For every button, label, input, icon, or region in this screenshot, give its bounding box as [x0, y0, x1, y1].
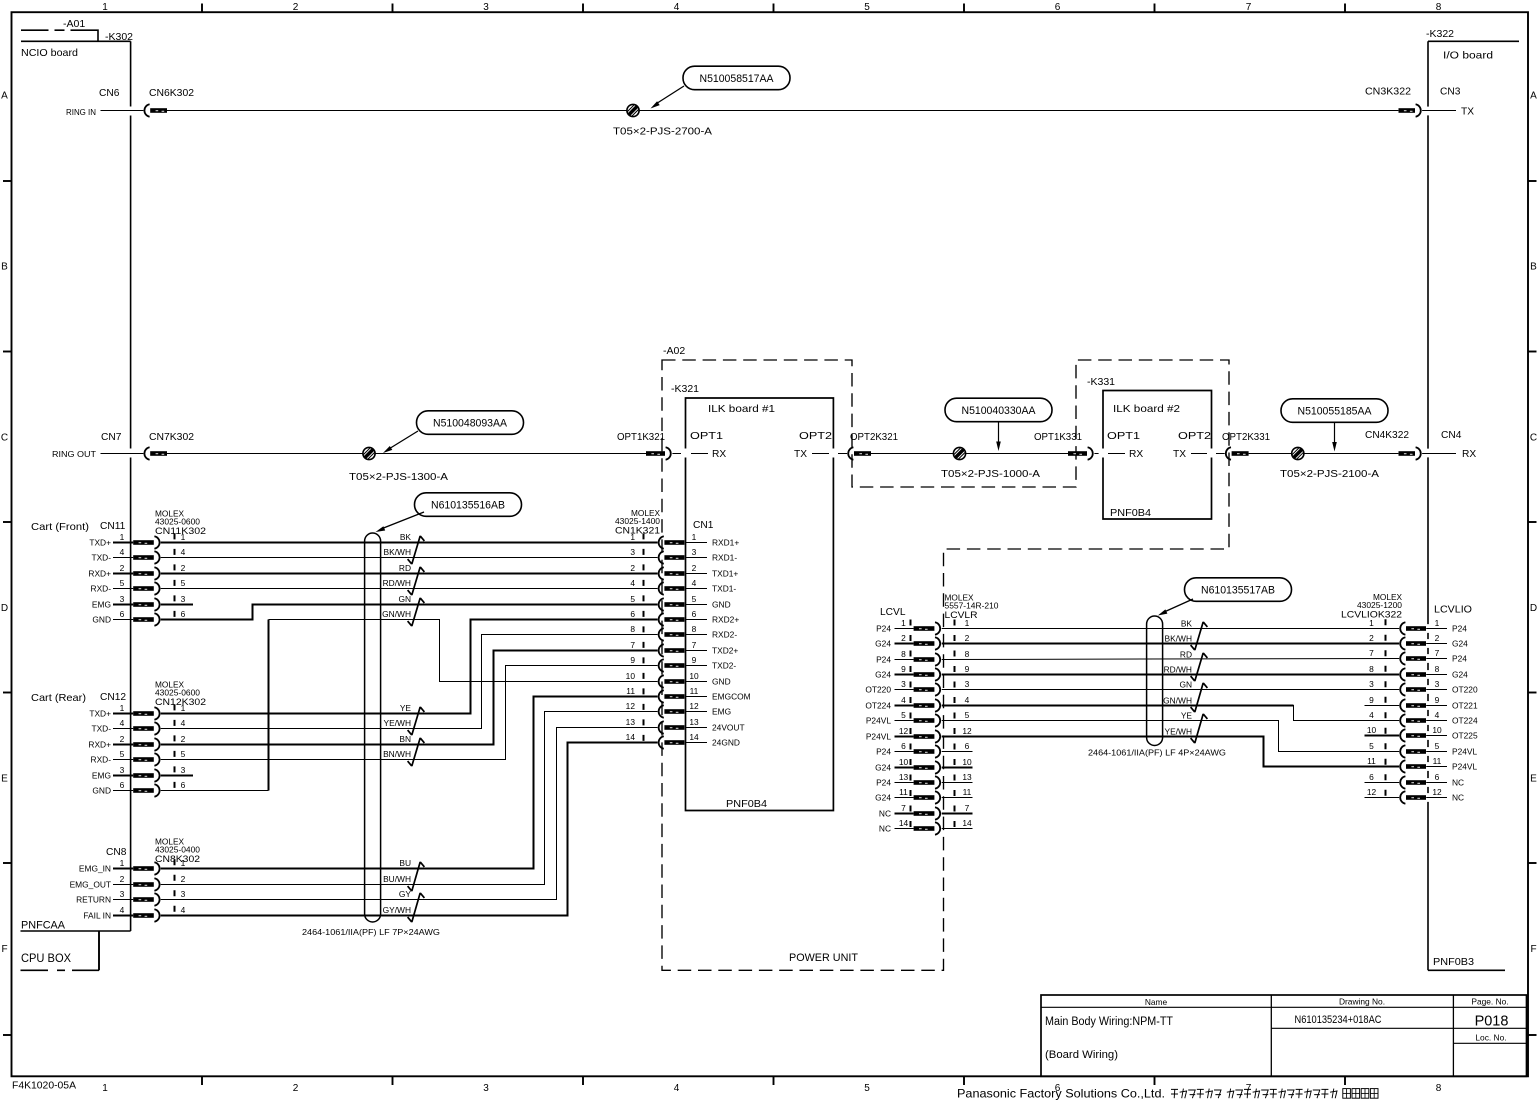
- pin 1 TXD+: [89, 703, 185, 720]
- svg-text:7: 7: [1246, 2, 1252, 13]
- svg-text:CN8K302: CN8K302: [155, 854, 200, 865]
- board PNFCAA name line: [21, 931, 131, 970]
- wire colour label BK: [400, 532, 412, 542]
- connector LCVL pin 7 NC: [879, 803, 970, 820]
- svg-text:RXD1-: RXD1-: [712, 553, 737, 563]
- svg-text:OT220: OT220: [865, 685, 891, 695]
- svg-text:6: 6: [630, 609, 635, 619]
- connector OPT2K321 plug: [848, 447, 871, 459]
- connector LCVLIO pin 6 NC: [1365, 772, 1465, 789]
- twisted pair mark right harness: [1191, 683, 1208, 712]
- label NCIO board: [21, 47, 78, 59]
- connector CN7K302 plug: [144, 447, 167, 459]
- label MOLEX 43025-1200 LCVLIOK322: [1341, 593, 1403, 621]
- callout N510040330AA: [945, 398, 1052, 451]
- wire colour label BN: [399, 734, 411, 744]
- svg-text:RXD-: RXD-: [91, 755, 112, 765]
- svg-text:P24: P24: [876, 655, 891, 665]
- svg-text:RX: RX: [1129, 449, 1143, 460]
- svg-text:7: 7: [1435, 648, 1440, 658]
- svg-text:D: D: [1530, 603, 1537, 614]
- svg-text:3: 3: [1369, 679, 1374, 689]
- svg-text:RXD+: RXD+: [88, 740, 111, 750]
- wire colour label GN: [398, 594, 411, 604]
- label CN7: [101, 432, 122, 443]
- connector LCVLIO pin 3 OT220: [1369, 679, 1478, 696]
- svg-text:P24VL: P24VL: [866, 716, 891, 726]
- wire BU CN8.1 to CN1.11: [161, 697, 658, 869]
- svg-text:5: 5: [630, 594, 635, 604]
- svg-text:TX: TX: [794, 449, 807, 460]
- svg-text:7: 7: [1369, 648, 1374, 658]
- wire RING IN cable left half: [167, 110, 627, 112]
- wire OPT1K321 to ILK1 edge: [672, 453, 681, 455]
- svg-text:NCIO board: NCIO board: [21, 47, 78, 59]
- svg-text:C: C: [1530, 433, 1537, 444]
- svg-text:10: 10: [1432, 725, 1442, 735]
- svg-text:P018: P018: [1475, 1014, 1509, 1030]
- label CN11: [100, 521, 126, 532]
- svg-text:-A02: -A02: [663, 345, 685, 357]
- twisted pair mark: [408, 862, 425, 891]
- svg-text:P24: P24: [1452, 654, 1467, 664]
- label I/O board: [1443, 50, 1493, 62]
- svg-text:BN/WH: BN/WH: [383, 749, 411, 759]
- connector CN1 pin 4 TXD1-: [630, 578, 736, 595]
- wire colour label RD: [399, 563, 411, 573]
- label OPT1 of ILK2: [1107, 431, 1140, 442]
- cable label T05x2-PJS-1000-A: [941, 469, 1040, 480]
- label Cart (Rear): [31, 692, 86, 704]
- wire colour label GN right harness: [1179, 679, 1192, 689]
- svg-text:3: 3: [483, 1083, 489, 1094]
- label OPT2 of ILK2: [1178, 431, 1211, 442]
- wire ILK1 TX out: [838, 453, 847, 455]
- svg-text:CN11: CN11: [100, 521, 126, 532]
- svg-text:24VOUT: 24VOUT: [712, 723, 745, 733]
- svg-text:5: 5: [864, 1083, 870, 1094]
- label CN6K302: [149, 88, 194, 99]
- svg-text:1: 1: [692, 532, 697, 542]
- wire colour label BU: [399, 858, 411, 868]
- svg-text:4: 4: [120, 718, 125, 728]
- svg-text:BK/WH: BK/WH: [384, 547, 411, 557]
- svg-text:-A01: -A01: [63, 18, 85, 30]
- svg-text:P24: P24: [876, 747, 891, 757]
- svg-text:BK: BK: [1181, 618, 1193, 628]
- svg-text:12: 12: [962, 726, 972, 736]
- svg-text:2: 2: [901, 633, 906, 643]
- svg-text:GN: GN: [398, 594, 411, 604]
- svg-text:G24: G24: [875, 639, 891, 649]
- wire colour label YE right harness: [1181, 710, 1193, 720]
- wire GN/WH CN12.6 stub: [161, 790, 269, 792]
- svg-text:12: 12: [689, 701, 699, 711]
- svg-text:OPT1K321: OPT1K321: [617, 432, 665, 443]
- connector CN1 pin 12 EMG: [626, 701, 731, 718]
- connector LCVLIO pin 10 OT225: [1365, 725, 1478, 742]
- svg-text:CN1K321: CN1K321: [615, 526, 660, 537]
- wire BN CN12.2 to CN1.7: [161, 651, 658, 745]
- connector LCVL pin 1 P24: [876, 618, 970, 635]
- svg-text:3: 3: [120, 765, 125, 775]
- connector LCVLIO pin 4 OT224: [1369, 710, 1478, 727]
- wire RING OUT to splice: [167, 453, 363, 455]
- svg-text:6: 6: [965, 741, 970, 751]
- connector CN11 mating line: [174, 533, 176, 625]
- svg-text:OPT1: OPT1: [1107, 431, 1140, 442]
- label OPT2K321: [850, 432, 898, 443]
- pin TX of ILK1: [794, 449, 829, 460]
- connector OPT1K331 plug: [1068, 447, 1093, 459]
- svg-text:6: 6: [1435, 772, 1440, 782]
- enclosure CPU BOX boundary bottom: [21, 969, 100, 971]
- wire GN CN11.6 to CN1.5: [161, 605, 658, 620]
- cable sheath 4P harness: [1147, 616, 1163, 746]
- svg-text:NC: NC: [879, 824, 891, 834]
- svg-text:EMGCOM: EMGCOM: [712, 692, 751, 702]
- svg-text:Name: Name: [1145, 997, 1168, 1007]
- wire GN/WH LCVL.4 to LCVLIO.4: [942, 705, 1294, 707]
- pin 5 RXD-: [91, 578, 186, 595]
- svg-text:T05×2-PJS-2700-A: T05×2-PJS-2700-A: [613, 127, 712, 138]
- svg-text:P24: P24: [1452, 624, 1467, 634]
- svg-text:3: 3: [1435, 679, 1440, 689]
- svg-text:1: 1: [630, 532, 635, 542]
- connector LCVL pin 8 P24: [876, 649, 970, 666]
- svg-text:10: 10: [1367, 725, 1377, 735]
- cable label T05x2-PJS-2100-A: [1280, 469, 1379, 480]
- svg-text:2: 2: [965, 633, 970, 643]
- wire YE/WH CN12.4 to CN1.8: [161, 635, 658, 729]
- pin CN3 TX of I/O board: [1422, 107, 1474, 118]
- svg-text:2: 2: [120, 874, 125, 884]
- label LCVL: [880, 607, 906, 618]
- svg-text:14: 14: [626, 732, 636, 742]
- svg-text:2: 2: [293, 2, 299, 13]
- svg-text:5: 5: [965, 710, 970, 720]
- svg-text:GND: GND: [712, 600, 731, 610]
- svg-text:4: 4: [181, 547, 186, 557]
- pin CN4 RX of I/O board: [1422, 449, 1476, 460]
- svg-text:BN: BN: [399, 734, 411, 744]
- connector LCVL pin 6 P24: [876, 741, 970, 758]
- svg-text:6: 6: [120, 609, 125, 619]
- svg-text:8: 8: [1435, 664, 1440, 674]
- svg-text:TXD2+: TXD2+: [712, 646, 738, 656]
- svg-text:B: B: [1530, 262, 1537, 273]
- wire stub LCVL pin 6: [942, 751, 973, 753]
- label MOLEX 43025-1400 CN1K321: [615, 509, 661, 537]
- svg-text:RING IN: RING IN: [66, 108, 96, 117]
- svg-text:F4K1020-05A: F4K1020-05A: [12, 1081, 76, 1092]
- wire splice to OPT1K321: [375, 453, 646, 455]
- svg-text:3: 3: [692, 547, 697, 557]
- svg-text:GND: GND: [92, 786, 111, 796]
- label CPU BOX: [21, 953, 71, 965]
- wire colour label BN/WH: [383, 749, 411, 759]
- svg-text:EMG_IN: EMG_IN: [79, 864, 111, 874]
- svg-text:RXD2-: RXD2-: [712, 630, 737, 640]
- svg-text:4: 4: [674, 1083, 680, 1094]
- svg-text:EMG: EMG: [92, 771, 111, 781]
- label LCVLIO: [1434, 605, 1472, 616]
- svg-text:TX: TX: [1173, 449, 1186, 460]
- label CN3: [1440, 87, 1461, 98]
- board K302 NCIO outline: [21, 41, 131, 931]
- title block header Loc. No.: [1475, 1033, 1506, 1043]
- pin RX of ILK2: [1108, 449, 1143, 460]
- svg-text:1: 1: [102, 1083, 108, 1094]
- svg-text:4: 4: [181, 718, 186, 728]
- svg-text:3: 3: [630, 547, 635, 557]
- title block header Page. No.: [1471, 997, 1508, 1007]
- wire colour label RD/WH: [383, 578, 411, 588]
- connector LCVL pin 9 G24: [875, 664, 970, 681]
- svg-text:GY/WH: GY/WH: [383, 905, 411, 915]
- svg-text:GND: GND: [712, 677, 731, 687]
- enclosure A01 CPU BOX boundary top: [21, 30, 98, 41]
- wire YE LCVL.5 to LCVLIO.5: [942, 721, 1399, 752]
- svg-text:RD/WH: RD/WH: [1164, 664, 1192, 674]
- label -K321: [671, 383, 699, 395]
- pin CN7 RING OUT of NCIO board: [52, 450, 143, 459]
- svg-text:3: 3: [181, 765, 186, 775]
- svg-text:8: 8: [1436, 2, 1442, 13]
- svg-text:BU/WH: BU/WH: [383, 874, 411, 884]
- connector CN1 pin 5 GND: [630, 594, 730, 611]
- pin 3 EMG: [92, 765, 186, 782]
- pin 4 TXD-: [91, 547, 185, 564]
- pin 2 RXD+: [88, 734, 185, 751]
- svg-text:I/O board: I/O board: [1443, 50, 1493, 62]
- svg-text:RD: RD: [399, 563, 411, 573]
- board K322 I/O board outline: [1428, 41, 1519, 970]
- svg-text:CN4K322: CN4K322: [1365, 430, 1409, 441]
- svg-text:CN7: CN7: [101, 432, 122, 443]
- svg-text:G24: G24: [875, 793, 891, 803]
- connector CN1 pin 2 TXD1+: [630, 563, 738, 580]
- svg-text:4: 4: [1435, 710, 1440, 720]
- connector LCVL pin 14 NC: [879, 818, 972, 835]
- connector LCVLIO pin 12 NC: [1365, 787, 1465, 804]
- wire RD/WH CN11.5 to CN1.4: [161, 588, 658, 590]
- title block header Drawing No.: [1339, 997, 1385, 1007]
- svg-text:CN6K302: CN6K302: [149, 88, 194, 99]
- svg-text:1: 1: [181, 858, 186, 868]
- svg-text:N610135516AB: N610135516AB: [431, 499, 505, 511]
- svg-text:2: 2: [1369, 633, 1374, 643]
- svg-text:2464-1061/IIA(PF) LF 7P×24AWG: 2464-1061/IIA(PF) LF 7P×24AWG: [302, 927, 440, 937]
- drawing number N610135234+018AC: [1295, 1014, 1382, 1026]
- callout N510055185AA: [1281, 399, 1388, 452]
- svg-text:3: 3: [965, 679, 970, 689]
- svg-text:RD/WH: RD/WH: [383, 578, 411, 588]
- svg-text:TXD-: TXD-: [91, 553, 111, 563]
- wire BN/WH CN12.5 to CN1.9: [161, 666, 658, 760]
- svg-text:NC: NC: [1452, 778, 1464, 788]
- svg-text:11: 11: [690, 686, 699, 696]
- callout N510048093AA: [383, 411, 524, 453]
- svg-text:4: 4: [120, 547, 125, 557]
- connector LCVL mating lines: [911, 620, 955, 837]
- svg-text:5: 5: [692, 594, 697, 604]
- svg-text:12: 12: [626, 701, 636, 711]
- label CN3K322: [1365, 87, 1411, 98]
- splice joint on PJS-1000 cable: [953, 447, 967, 461]
- svg-text:EMG: EMG: [92, 600, 111, 610]
- svg-text:RING OUT: RING OUT: [52, 450, 96, 459]
- wire colour label BK/WH: [384, 547, 411, 557]
- connector LCVL pin 2 G24: [875, 633, 970, 650]
- svg-text:N510048093AA: N510048093AA: [433, 417, 508, 429]
- svg-text:2: 2: [692, 563, 697, 573]
- svg-text:10: 10: [899, 757, 909, 767]
- pin 4 TXD-: [91, 718, 185, 735]
- svg-text:-K321: -K321: [671, 383, 699, 395]
- enclosure A02 POWER UNIT dashed boundary: [662, 360, 1229, 970]
- svg-text:1: 1: [181, 532, 186, 542]
- cable label T05x2-PJS-2700-A: [613, 127, 712, 138]
- svg-text:5: 5: [901, 710, 906, 720]
- svg-text:6: 6: [1055, 2, 1061, 13]
- svg-text:11: 11: [963, 787, 972, 797]
- svg-text:N510058517AA: N510058517AA: [700, 73, 775, 85]
- svg-text:9: 9: [1369, 695, 1374, 705]
- label MOLEX 43025-0600 CN11K302: [155, 510, 206, 538]
- svg-text:10: 10: [626, 671, 636, 681]
- svg-text:9: 9: [1435, 695, 1440, 705]
- splice joint on PJS-2100 cable: [1291, 447, 1305, 461]
- svg-text:Cart (Front): Cart (Front): [31, 521, 89, 533]
- svg-text:GN: GN: [1179, 679, 1192, 689]
- connector CN6K302 plug: [144, 104, 167, 116]
- svg-text:RD: RD: [1180, 649, 1192, 659]
- svg-text:T05×2-PJS-1000-A: T05×2-PJS-1000-A: [941, 469, 1040, 480]
- svg-text:8: 8: [901, 649, 906, 659]
- wire GY CN8.3 to CN1.13: [161, 728, 658, 900]
- pin 3 EMG: [92, 594, 186, 611]
- svg-text:-K322: -K322: [1426, 28, 1454, 40]
- svg-text:2: 2: [293, 1083, 299, 1094]
- svg-text:F: F: [1530, 944, 1536, 955]
- svg-text:6: 6: [120, 780, 125, 790]
- svg-text:BK/WH: BK/WH: [1165, 633, 1192, 643]
- svg-text:RXD2+: RXD2+: [712, 615, 739, 625]
- svg-text:CN1: CN1: [693, 520, 714, 531]
- pin 4 FAIL IN: [83, 905, 185, 922]
- pin 1 EMG_IN: [79, 858, 186, 875]
- svg-text:OPT1: OPT1: [690, 431, 723, 442]
- svg-text:RXD+: RXD+: [88, 569, 111, 579]
- svg-text:-K331: -K331: [1087, 376, 1115, 388]
- label CN7K302: [149, 432, 194, 443]
- wire colour label GN/WH right harness: [1163, 695, 1192, 705]
- svg-text:Main Body Wiring:NPM-TT: Main Body Wiring:NPM-TT: [1045, 1016, 1173, 1028]
- label CN6: [99, 88, 120, 99]
- svg-text:2: 2: [120, 563, 125, 573]
- svg-text:3: 3: [120, 889, 125, 899]
- pin 2 RXD+: [88, 563, 185, 580]
- svg-text:TX: TX: [1461, 107, 1474, 118]
- callout N510058517AA: [651, 66, 791, 108]
- wire splice to OPT1K331: [966, 453, 1068, 455]
- connector LCVL pin 4 OT224: [865, 695, 969, 712]
- svg-text:4: 4: [1369, 710, 1374, 720]
- svg-text:T05×2-PJS-1300-A: T05×2-PJS-1300-A: [349, 472, 448, 483]
- wire GN LCVL.3 to LCVLIO.3: [942, 689, 1399, 691]
- label MOLEX 43025-0400 CN8K302: [155, 838, 201, 866]
- svg-text:5: 5: [1369, 741, 1374, 751]
- svg-text:8: 8: [1436, 1083, 1442, 1094]
- label -K331: [1087, 376, 1115, 388]
- svg-text:C: C: [1, 433, 8, 444]
- twisted pair mark: [408, 536, 425, 564]
- wire RD CN11.2 to CN1.2: [161, 573, 658, 575]
- svg-text:3: 3: [901, 679, 906, 689]
- svg-text:7: 7: [965, 803, 970, 813]
- svg-text:10: 10: [689, 671, 699, 681]
- connector CN12 pins: [88, 703, 185, 797]
- connector LCVLIO mating line: [1385, 619, 1387, 804]
- wire colour label RD/WH right harness: [1164, 664, 1192, 674]
- connector LCVL pin 11 G24: [875, 787, 972, 804]
- svg-text:GY: GY: [399, 889, 412, 899]
- svg-text:T05×2-PJS-2100-A: T05×2-PJS-2100-A: [1280, 469, 1379, 480]
- connector LCVLIO pin 1 P24: [1369, 618, 1467, 635]
- label PNF0B3: [1433, 956, 1474, 968]
- svg-text:11: 11: [626, 686, 635, 696]
- form number F4K1020-05A: [12, 1081, 76, 1092]
- svg-text:YE: YE: [1181, 710, 1193, 720]
- svg-text:P24VL: P24VL: [1452, 762, 1477, 772]
- wire colour label GY/WH: [383, 905, 411, 915]
- svg-text:8: 8: [630, 624, 635, 634]
- label CN8: [106, 847, 127, 858]
- svg-text:A: A: [1, 91, 8, 102]
- svg-text:5: 5: [181, 749, 186, 759]
- connector OPT2K331 plug: [1226, 447, 1249, 459]
- label PNFCAA: [21, 920, 66, 932]
- connector CN1 pin 8 RXD2-: [630, 624, 737, 641]
- wire GN/WH riser CN12 to row6: [268, 620, 270, 791]
- wire stub LCVL pin 7: [942, 813, 973, 815]
- label MOLEX 43025-0600 CN12K302: [155, 681, 206, 709]
- label POWER UNIT: [789, 952, 858, 964]
- svg-text:8: 8: [1369, 664, 1374, 674]
- svg-text:6: 6: [692, 609, 697, 619]
- svg-text:PNF0B4: PNF0B4: [1110, 508, 1151, 519]
- connector CN1 pin 9 TXD2-: [630, 655, 736, 672]
- svg-text:TXD1-: TXD1-: [712, 584, 736, 594]
- connector CN1 pin 13 24VOUT: [626, 717, 745, 734]
- svg-text:6: 6: [181, 780, 186, 790]
- twisted pair mark: [408, 707, 425, 735]
- svg-text:P24: P24: [876, 778, 891, 788]
- svg-text:Loc. No.: Loc. No.: [1475, 1033, 1506, 1043]
- svg-text:OPT1K331: OPT1K331: [1034, 432, 1082, 443]
- frame column ticks top and bottom: [202, 4, 1345, 1086]
- pin 2 EMG_OUT: [70, 874, 186, 891]
- svg-text:9: 9: [901, 664, 906, 674]
- cable label 2464-1061 7P: [302, 927, 440, 937]
- svg-text:4: 4: [965, 695, 970, 705]
- title block: [1041, 995, 1527, 1076]
- svg-text:Page. No.: Page. No.: [1471, 997, 1508, 1007]
- wire BK LCVL.1 to LCVLIO.1: [942, 628, 1399, 630]
- svg-text:4: 4: [630, 578, 635, 588]
- pin 6 GND: [92, 609, 185, 626]
